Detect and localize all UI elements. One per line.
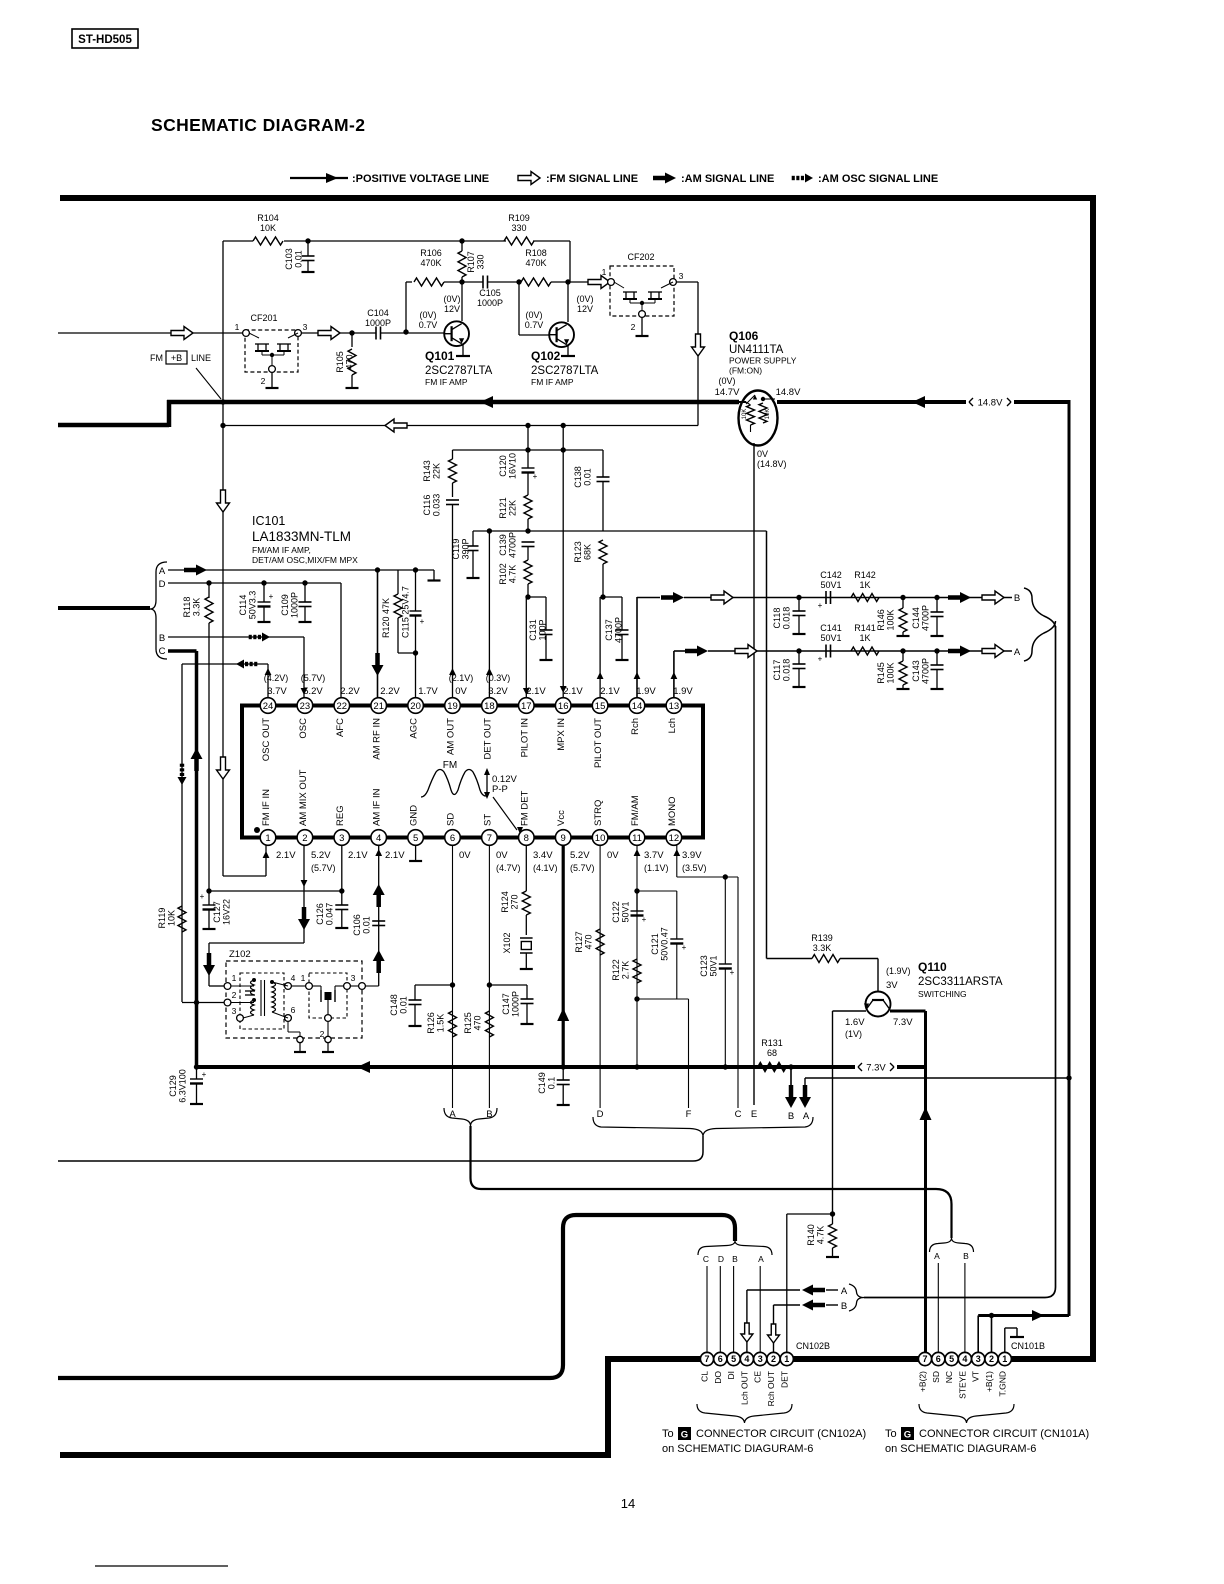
svg-text:(FM:ON): (FM:ON)	[729, 366, 762, 376]
Z102 right pin	[359, 983, 366, 990]
thick AM line C row	[168, 649, 197, 653]
wire to CN101B VT pin3	[977, 1316, 979, 1353]
svg-text:+: +	[200, 892, 205, 901]
wire Z102 pin2 tap from AM line	[182, 1002, 224, 1004]
wire rail corner down to x=570	[569, 241, 571, 282]
svg-text:(1V): (1V)	[845, 1029, 862, 1039]
wire Lch row to CN102B pin4	[746, 1290, 748, 1352]
svg-text:10: 10	[595, 833, 606, 844]
svg-text:X102: X102	[502, 932, 512, 953]
svg-text:4700P: 4700P	[508, 532, 518, 558]
pin 13 wire and voltage	[673, 651, 675, 697]
svg-text:UN4111TA: UN4111TA	[729, 344, 784, 356]
CN102B pin 3 CE	[754, 1352, 767, 1365]
0.12V P-P annotation	[486, 770, 488, 797]
svg-text:1: 1	[602, 267, 607, 277]
FM signal open arrow down on x=698	[692, 334, 705, 356]
svg-text:AFC: AFC	[335, 718, 346, 737]
capacitor C105 1000P	[462, 281, 483, 283]
CN102B pin 6 DO	[714, 1352, 727, 1365]
CN102B pin 5 DI	[727, 1352, 740, 1365]
AM OSC arrow down on x=182	[178, 777, 187, 785]
Z102 resonator pin 3	[344, 983, 351, 990]
svg-text:390P: 390P	[461, 538, 471, 559]
Q106 emitter wire down	[753, 443, 755, 1105]
AM signal arrow on A row out	[697, 646, 708, 657]
CF202 pin2 ground bar	[641, 317, 643, 336]
wire OSC OUT row y=664	[182, 663, 268, 665]
FM signal open arrow A out	[982, 645, 1004, 658]
positive voltage arrow right on +B row	[1032, 1310, 1044, 1321]
svg-text:0V: 0V	[455, 686, 467, 697]
svg-text:A: A	[758, 1254, 764, 1264]
svg-text:13: 13	[669, 701, 680, 712]
positive voltage arrow on 14.8V line	[912, 396, 925, 408]
thick 14.8V line right of Q106	[777, 400, 966, 404]
svg-text:12V: 12V	[444, 304, 460, 314]
svg-text:+: +	[533, 472, 538, 481]
FM signal open arrow B out	[982, 591, 1004, 604]
wire rail y=999 to F	[637, 998, 689, 1000]
CF202 pin 1	[608, 279, 615, 286]
Z102 pin 4	[285, 983, 292, 990]
capacitor C141 50V1 electrolytic	[825, 645, 827, 658]
svg-text:MPX IN: MPX IN	[556, 718, 567, 751]
terminator on A row end	[433, 570, 435, 580]
svg-text:A: A	[841, 1286, 848, 1297]
svg-text:(0V): (0V)	[443, 294, 460, 304]
page border step at x=608	[605, 1357, 611, 1458]
wire rail y=891 to C121	[637, 890, 677, 892]
pin 16 wire and voltage	[562, 426, 564, 698]
svg-text:1.9V: 1.9V	[673, 686, 693, 697]
svg-text:3.7V: 3.7V	[644, 850, 664, 861]
svg-text:+: +	[682, 943, 687, 952]
resistor R108 470K	[521, 278, 551, 286]
capacitor C149 0.1	[562, 1067, 564, 1080]
svg-text:A: A	[1014, 647, 1021, 658]
svg-text:7.3V: 7.3V	[866, 1063, 886, 1074]
svg-text:AGC: AGC	[409, 718, 420, 739]
IC101 pin 19 AM OUT	[445, 698, 461, 714]
capacitor C106 0.01	[372, 920, 385, 922]
svg-text:3: 3	[679, 271, 684, 281]
svg-text:470K: 470K	[525, 258, 546, 268]
node R106 base junction	[403, 329, 408, 334]
crystal X102	[520, 937, 533, 939]
pin 19 wire and voltage	[452, 514, 454, 697]
wire Rch row to CN102B pin2	[773, 1305, 775, 1352]
svg-text:T.GND: T.GND	[997, 1371, 1007, 1397]
AM signal arrow down to B label	[790, 1067, 792, 1085]
capacitor C142 50V1 electrolytic	[825, 591, 827, 604]
svg-text:470: 470	[473, 1015, 483, 1030]
capacitor C144 4700P	[936, 598, 938, 613]
svg-text:C: C	[703, 1254, 709, 1264]
svg-text:2: 2	[771, 1354, 776, 1364]
pin 10 STRQ wire down to D	[599, 845, 601, 1108]
svg-text:REG: REG	[335, 805, 346, 826]
svg-text:1.7V: 1.7V	[418, 686, 438, 697]
legend AM signal line symbol	[665, 173, 676, 184]
svg-text:MONO: MONO	[667, 796, 678, 826]
CN101B pin 6 SD	[932, 1352, 945, 1365]
ceramic filter CF201 box	[245, 330, 298, 372]
node A row R145	[900, 648, 905, 653]
svg-text:R119: R119	[157, 908, 167, 929]
wire combined B A output down right side	[1055, 626, 1057, 1277]
svg-text:3.3K: 3.3K	[813, 943, 832, 953]
svg-text:NC: NC	[944, 1371, 954, 1383]
brace bundle A B under SD ST lines	[444, 1108, 497, 1126]
svg-text::FM SIGNAL LINE: :FM SIGNAL LINE	[546, 173, 638, 185]
svg-text:To: To	[662, 1428, 674, 1440]
capacitor C116 0.033	[446, 499, 459, 501]
svg-text:AM OUT: AM OUT	[446, 718, 457, 755]
svg-text:3: 3	[303, 322, 308, 332]
IC101 pin 6 SD	[445, 830, 461, 846]
svg-text:1.5K: 1.5K	[436, 1014, 446, 1033]
svg-text:on SCHEMATIC DIAGURAM-6: on SCHEMATIC DIAGURAM-6	[885, 1443, 1036, 1455]
svg-text:6: 6	[936, 1354, 941, 1364]
node pin11 upper rail	[634, 888, 639, 893]
Z102 pin 1	[224, 983, 231, 990]
svg-text:2: 2	[261, 376, 266, 386]
FM open arrow down to Lch OUT	[741, 1323, 753, 1342]
node D row C114	[261, 580, 266, 585]
transistor Q110 2SC3311ARSTA switching	[866, 992, 891, 1017]
svg-text:4.7K: 4.7K	[508, 565, 518, 584]
svg-text:0.01: 0.01	[294, 250, 304, 268]
svg-text:4700P: 4700P	[614, 617, 624, 643]
svg-text:3: 3	[339, 833, 344, 844]
svg-text:C120: C120	[498, 455, 508, 477]
svg-text:ST: ST	[482, 814, 493, 826]
resistor R146 100K	[902, 598, 904, 609]
node D row R118	[206, 580, 211, 585]
svg-text:R120 47K: R120 47K	[381, 598, 391, 638]
svg-text:19: 19	[447, 701, 458, 712]
resistor R102 4.7K	[524, 560, 532, 584]
AM signal arrow B out	[960, 592, 971, 603]
FM signal open arrow on A row out	[735, 645, 757, 658]
svg-text:7.3V: 7.3V	[893, 1017, 913, 1028]
wire A row to pin 21	[168, 569, 434, 571]
svg-text:R142: R142	[854, 570, 876, 580]
pin 6 SD wire down to A	[452, 845, 454, 1108]
svg-text:100P: 100P	[538, 619, 548, 640]
svg-text:2: 2	[631, 322, 636, 332]
svg-text:Lch: Lch	[667, 718, 678, 733]
svg-text:2.1V: 2.1V	[276, 850, 296, 861]
wire +B feed row y=1315.5	[978, 1314, 1069, 1317]
IC101 pin 3 REG	[334, 830, 350, 846]
svg-text:OSC: OSC	[298, 718, 309, 739]
wire A output row y=651	[674, 650, 687, 652]
wire REG rail y=891	[209, 890, 342, 892]
svg-text:68: 68	[767, 1048, 777, 1058]
svg-text:C103: C103	[284, 248, 294, 270]
svg-text:CN101B: CN101B	[1011, 1341, 1045, 1351]
resistor R126 1.5K on SD line	[449, 1011, 457, 1037]
svg-text:6: 6	[718, 1354, 723, 1364]
svg-text:0.01: 0.01	[399, 996, 409, 1014]
thick 14.8V line to right corner and down	[1014, 400, 1069, 404]
CN101B pin 3 VT	[972, 1352, 985, 1365]
node rail x=563	[561, 447, 566, 452]
node R107 top at rail	[459, 238, 464, 243]
capacitor C131 100P	[528, 596, 546, 598]
svg-text:1K: 1K	[859, 633, 870, 643]
svg-text:PILOT IN: PILOT IN	[519, 718, 530, 758]
svg-text:C144: C144	[911, 607, 921, 629]
IC101 pin 20 AGC	[408, 698, 424, 714]
svg-text:330: 330	[511, 223, 526, 233]
svg-text:C104: C104	[367, 308, 389, 318]
svg-text:Z102: Z102	[229, 949, 251, 960]
small arrow up at pin 24 leg	[265, 668, 272, 675]
svg-text:3V: 3V	[886, 980, 898, 991]
svg-text:1.9V: 1.9V	[636, 686, 656, 697]
svg-text:+: +	[420, 617, 425, 626]
svg-text:C148: C148	[389, 994, 399, 1016]
svg-text:0.033: 0.033	[432, 494, 442, 517]
svg-text:DET OUT: DET OUT	[482, 718, 493, 760]
svg-text:AM MIX OUT: AM MIX OUT	[298, 769, 309, 826]
wire FM IF return line y=425.5	[223, 425, 698, 427]
over-brace to CN102B C D B A lines	[698, 1241, 772, 1255]
brace for A D B C bundle	[150, 562, 167, 659]
IC101 pin 22 AFC	[334, 698, 350, 714]
pin 7 ST wire down to B	[488, 845, 490, 1108]
svg-text:FM/AM: FM/AM	[630, 795, 641, 826]
svg-text:22K: 22K	[508, 500, 518, 516]
AM arrow left on Lch row	[802, 1285, 813, 1296]
svg-text:1000P: 1000P	[290, 592, 300, 618]
svg-text:1: 1	[232, 973, 237, 983]
page border right edge	[1090, 195, 1096, 1362]
svg-text:7: 7	[487, 833, 492, 844]
svg-text:50V1: 50V1	[709, 955, 719, 976]
svg-text:A: A	[803, 1111, 810, 1122]
FM open arrow down to Rch OUT	[768, 1324, 780, 1343]
svg-text:C118: C118	[772, 608, 782, 629]
svg-text:CE: CE	[753, 1371, 763, 1383]
IC101 pin 24 OSC OUT	[260, 698, 276, 714]
svg-text:16V22: 16V22	[222, 899, 232, 925]
transistor Q106 UN4111TA power supply	[739, 391, 778, 446]
resistor R121 22K	[524, 495, 532, 519]
svg-text:(3.5V): (3.5V)	[682, 863, 707, 873]
wire D row to pin 22	[168, 582, 341, 584]
FM signal open arrow left on return line	[385, 419, 407, 432]
svg-text:C123: C123	[699, 955, 709, 977]
transformer unit Z102 outer box	[226, 961, 362, 1038]
wire x=223 vertical from top loop through bus	[222, 241, 224, 402]
svg-text:4: 4	[962, 1354, 967, 1364]
svg-text:FM IF IN: FM IF IN	[261, 789, 272, 826]
svg-text:Lch OUT: Lch OUT	[739, 1371, 749, 1405]
capacitor C138 0.01	[562, 449, 564, 451]
wire top rail y=241 R104 loop	[223, 240, 253, 242]
svg-text:470K: 470K	[420, 258, 441, 268]
CF201 pin 2	[269, 366, 276, 373]
CN102B pin 4 Lch OUT	[740, 1352, 753, 1365]
svg-text:+: +	[818, 601, 823, 610]
svg-text:24: 24	[263, 701, 274, 712]
svg-text:STEYE: STEYE	[957, 1371, 967, 1399]
svg-text:C121: C121	[650, 933, 660, 955]
svg-text:FM IF AMP: FM IF AMP	[425, 377, 468, 387]
svg-text:SWITCHING: SWITCHING	[918, 989, 967, 999]
wire A B merged line to CN101B	[471, 1126, 952, 1238]
capacitor C148 0.01	[415, 984, 453, 986]
svg-text:(0V): (0V)	[419, 310, 436, 320]
svg-text:2.2V: 2.2V	[380, 686, 400, 697]
svg-text:SCHEMATIC DIAGRAM-2: SCHEMATIC DIAGRAM-2	[151, 115, 365, 135]
svg-text:AM RF IN: AM RF IN	[372, 718, 383, 760]
Z102 pin6 to ground stub	[287, 1021, 289, 1032]
svg-text:P-P: P-P	[492, 784, 508, 795]
svg-text:3.2V: 3.2V	[488, 686, 508, 697]
svg-text:VT: VT	[971, 1371, 981, 1382]
svg-text:(0V): (0V)	[718, 376, 735, 386]
svg-text:14: 14	[632, 701, 643, 712]
svg-text:C: C	[159, 646, 166, 657]
node R121 bottom at DET rail	[525, 528, 530, 533]
pin 11 FM/AM wire	[636, 845, 638, 1067]
AM signal arrow up on thick AM line	[191, 748, 203, 759]
svg-text:Rch OUT: Rch OUT	[766, 1371, 776, 1406]
svg-text:16: 16	[558, 701, 569, 712]
svg-text:R106: R106	[420, 248, 442, 258]
svg-text:330: 330	[476, 254, 486, 269]
svg-text:R122: R122	[611, 959, 621, 981]
Z102 tuning capacitor	[245, 990, 255, 992]
svg-text:0.01: 0.01	[362, 916, 372, 934]
positive voltage arrow up on Vcc	[557, 1008, 569, 1021]
svg-text:3.7V: 3.7V	[267, 686, 287, 697]
svg-text:0.7V: 0.7V	[419, 320, 438, 330]
svg-text:FM IF AMP: FM IF AMP	[531, 377, 574, 387]
svg-text:R139: R139	[811, 933, 833, 943]
svg-text:D: D	[718, 1254, 724, 1264]
AM signal arrow down into pin 21	[372, 665, 384, 676]
resistor R143 22K	[452, 450, 454, 459]
IC101 pin 13 Lch	[666, 698, 682, 714]
node AM line Z102 tap	[194, 1000, 199, 1005]
pin 8 FM DET wire	[525, 845, 527, 891]
capacitor C122 50V1 electrolytic	[636, 891, 638, 911]
svg-text:68K: 68K	[583, 544, 593, 560]
svg-text:50V1: 50V1	[820, 580, 841, 590]
svg-text:E: E	[751, 1109, 757, 1120]
IC101 pin 1 FM IF IN	[260, 830, 276, 846]
Z102 pin6 ground bar	[299, 1043, 301, 1053]
node rail x=528	[525, 447, 530, 452]
pin 2 wire AM MIX OUT	[303, 845, 305, 943]
bottom left rule	[95, 1565, 228, 1567]
label 14.8V on line	[969, 398, 973, 402]
IC101 pin 23 OSC	[297, 698, 313, 714]
svg-text:R126: R126	[426, 1012, 436, 1034]
Z102 inner transformer box	[240, 973, 284, 1029]
label 7.3V on bus	[858, 1063, 862, 1067]
CF201 internal elements	[255, 343, 269, 345]
svg-text:(5.7V): (5.7V)	[311, 863, 336, 873]
legend FM signal line symbol	[518, 172, 540, 185]
resistor R127 470 on STRQ line	[596, 929, 604, 955]
AM signal arrow down on jog	[203, 965, 215, 976]
svg-text:(2.1V): (2.1V)	[449, 673, 474, 683]
resistor R122 2.7K	[633, 959, 641, 983]
page border top edge	[60, 195, 1096, 201]
pointer arrow to pin 8	[493, 797, 517, 830]
svg-text::AM OSC SIGNAL LINE: :AM OSC SIGNAL LINE	[818, 173, 938, 185]
transistor Q102 2SC2787LTA	[567, 282, 569, 322]
resistor R140 4.7K	[832, 1214, 834, 1224]
pin 15 wire and voltage	[599, 597, 601, 697]
capacitor C117 0.018	[798, 651, 800, 664]
svg-text:5.2V: 5.2V	[303, 686, 323, 697]
svg-text:G: G	[904, 1430, 911, 1441]
svg-text:FM: FM	[443, 760, 457, 771]
resistor R145 100K	[902, 651, 904, 661]
wire DET line corner to R139	[767, 958, 813, 960]
node C115 pin20 junction	[413, 650, 418, 655]
svg-text:(0V): (0V)	[576, 294, 593, 304]
CN101B pin 7 +B(2)	[918, 1352, 931, 1365]
svg-text:C117: C117	[772, 660, 782, 681]
resistor R141 1K	[851, 647, 879, 655]
node B row R146	[900, 595, 905, 600]
svg-text:+B(2): +B(2)	[918, 1371, 928, 1392]
svg-text:4: 4	[376, 833, 381, 844]
svg-text:0.047: 0.047	[325, 903, 335, 926]
svg-text:C114: C114	[238, 595, 248, 616]
svg-text:A: A	[934, 1251, 940, 1261]
svg-text:1000P: 1000P	[477, 298, 503, 308]
svg-text:2: 2	[232, 990, 237, 1000]
wire R139 to Q110 base	[840, 958, 878, 960]
CF201 pin2 ground bar	[271, 372, 273, 388]
node 14.8V branch	[1066, 1075, 1071, 1080]
svg-text:Rch: Rch	[630, 718, 641, 735]
svg-text:DO: DO	[713, 1371, 723, 1384]
svg-text:(14.8V): (14.8V)	[757, 459, 787, 469]
svg-text:C149: C149	[537, 1072, 547, 1094]
resistor R107 330 vertical	[461, 241, 463, 251]
node return line at x=223	[220, 423, 225, 428]
svg-text:0V: 0V	[757, 449, 768, 459]
IC101 pin 11 FM/AM	[629, 830, 645, 846]
node REG rail right	[339, 888, 344, 893]
FM +B thick bus left segment	[58, 423, 169, 428]
svg-text:2: 2	[989, 1354, 994, 1364]
svg-text:PILOT OUT: PILOT OUT	[593, 718, 604, 768]
svg-text:CL: CL	[700, 1371, 710, 1382]
svg-text:2.2V: 2.2V	[340, 686, 360, 697]
capacitor C119 390P	[472, 531, 474, 546]
svg-text:D: D	[159, 579, 166, 590]
svg-text:(4.1V): (4.1V)	[533, 863, 558, 873]
svg-text:R131: R131	[761, 1038, 783, 1048]
svg-text:10K: 10K	[742, 409, 748, 420]
callout line to FM +B bus node	[196, 368, 221, 399]
svg-text:(5.7V): (5.7V)	[301, 673, 326, 683]
svg-text:1000P: 1000P	[511, 991, 521, 1017]
svg-text:+B(1): +B(1)	[984, 1371, 994, 1392]
